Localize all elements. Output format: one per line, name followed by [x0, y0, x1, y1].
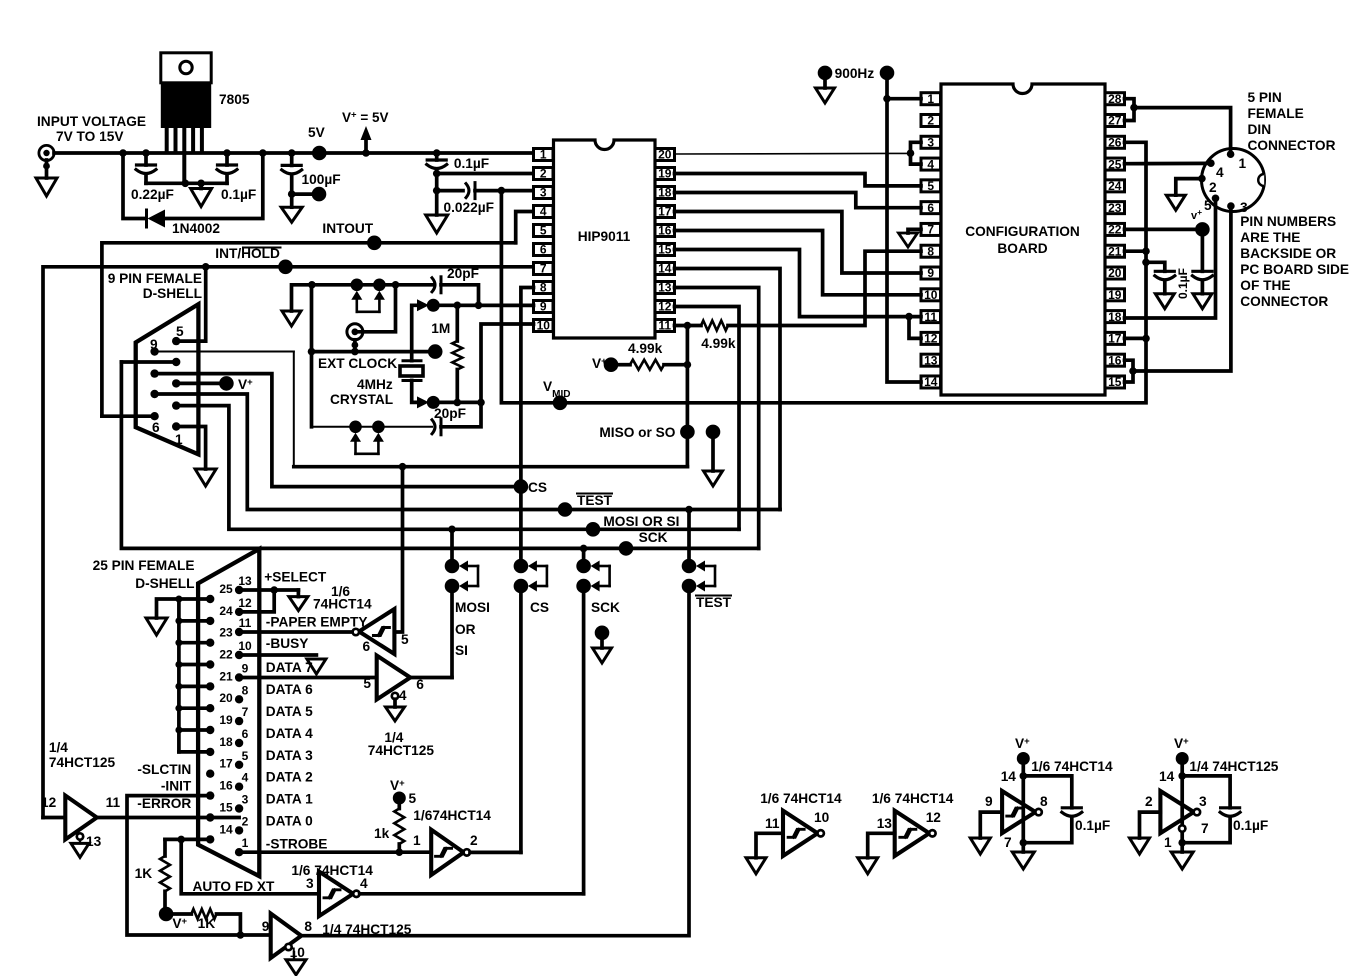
pin 4 CONFIGURATION BOARD — [921, 158, 941, 170]
overline INT/HOLD — [243, 247, 281, 249]
svg-text:6: 6 — [242, 727, 249, 741]
pin 26 CONFIGURATION BOARD — [1105, 136, 1125, 148]
pin 24 DB25 — [206, 617, 214, 625]
resistor R1 4.99k pullup to V+ — [604, 357, 619, 372]
wire config 16/15 bracket to DIN pin3 — [1125, 360, 1134, 382]
svg-text:0.1µF: 0.1µF — [454, 156, 489, 171]
svg-text:10: 10 — [814, 810, 830, 825]
svg-text:2: 2 — [470, 833, 478, 848]
pin 16 DB25 — [206, 791, 214, 799]
ground DB9 pin1 — [195, 469, 216, 486]
svg-text:CS: CS — [530, 600, 549, 615]
wire bottom jumper line — [312, 426, 433, 428]
svg-text:8: 8 — [1040, 794, 1048, 809]
wire config pin25 to DIN pin4 — [1125, 162, 1208, 166]
wire jack center to jumper — [358, 285, 396, 332]
resistor R5 1K vertical — [160, 856, 170, 891]
svg-text:3: 3 — [306, 876, 314, 891]
pin 13 DB25 — [235, 586, 243, 594]
svg-text:0.022µF: 0.022µF — [444, 200, 495, 215]
svg-text:11: 11 — [658, 319, 671, 333]
wire TEST jumper to buffer output — [301, 586, 689, 936]
svg-text:1: 1 — [413, 833, 421, 848]
svg-text:9: 9 — [927, 266, 934, 280]
node XTAL1 — [427, 299, 440, 312]
pin 5 CONFIGURATION BOARD — [921, 180, 941, 192]
wire XTAL1 node to HIP pin9 — [433, 303, 533, 307]
svg-text:7V TO 15V: 7V TO 15V — [56, 129, 124, 144]
svg-text:BACKSIDE OR: BACKSIDE OR — [1240, 246, 1336, 261]
ground -BUSY — [307, 659, 326, 674]
wire MOSI net from DB9 pin2 — [176, 406, 739, 530]
svg-text:7: 7 — [540, 262, 547, 276]
wire V+ rail — [54, 151, 534, 155]
svg-text:4: 4 — [540, 205, 547, 219]
resistor R6 1K horizontal — [173, 912, 191, 916]
svg-text:10: 10 — [290, 945, 306, 960]
node MOSI OR SI — [586, 522, 601, 537]
resistor R4 1k pullup — [394, 809, 404, 845]
wire spare U3E input to ground — [980, 812, 1002, 838]
wire TEST net from DB9 pin7 — [155, 394, 780, 510]
ground DIN pin2 — [1166, 195, 1185, 210]
pin 11 CONFIGURATION BOARD — [921, 311, 941, 323]
svg-text:0.1µF: 0.1µF — [1075, 818, 1110, 833]
node 900Hz left — [818, 66, 833, 81]
pin 3 CONFIGURATION BOARD — [921, 136, 941, 148]
bubble enable pin4 — [392, 693, 398, 699]
connector J3 9 PIN FEMALE D-SHELL — [136, 304, 199, 454]
pin 22 DB25 — [206, 660, 214, 668]
svg-text:4: 4 — [399, 688, 407, 703]
svg-text:1: 1 — [175, 432, 183, 447]
wire DB9 pin3 to V+ — [176, 382, 219, 386]
svg-text:V+ = 5V: V+ = 5V — [342, 110, 388, 126]
svg-text:-INIT: -INIT — [161, 779, 192, 794]
svg-text:12: 12 — [238, 596, 252, 610]
wire CS inverter output — [470, 851, 521, 855]
pin 1 DIN — [1227, 150, 1235, 158]
wire XTAL2 node — [433, 401, 481, 405]
svg-text:0.22µF: 0.22µF — [131, 187, 174, 202]
pin 12 CONFIGURATION BOARD — [921, 332, 941, 344]
node VMID — [553, 396, 568, 411]
svg-text:CS: CS — [528, 480, 547, 495]
wire HIP pin16 to config pin10 — [675, 231, 922, 295]
wire VMID bus — [501, 142, 1146, 403]
svg-text:20: 20 — [219, 691, 233, 705]
svg-text:DATA 5: DATA 5 — [266, 704, 313, 719]
pin 14 DB25 — [206, 835, 214, 843]
svg-text:15: 15 — [219, 801, 233, 815]
svg-text:DATA 6: DATA 6 — [266, 682, 313, 697]
svg-text:-BUSY: -BUSY — [266, 636, 309, 651]
pin 23 DB25 — [206, 639, 214, 647]
wire EXT CLOCK line — [310, 285, 314, 427]
pin 7 CONFIGURATION BOARD — [921, 223, 941, 235]
svg-text:MOSI OR SI: MOSI OR SI — [603, 514, 679, 529]
svg-text:2: 2 — [1145, 794, 1153, 809]
svg-text:SCK: SCK — [591, 600, 620, 615]
svg-text:19: 19 — [1108, 288, 1122, 302]
wire HIP pin15 to config pin11 — [675, 250, 922, 317]
svg-text:6: 6 — [363, 639, 371, 654]
pin 10 HIP9011 — [534, 320, 554, 332]
wire config pins 3-4 bracket — [911, 142, 922, 164]
capacitor C10 0.1uF left — [1146, 262, 1165, 271]
capacitor C9 0.1uF spare 2 — [1221, 806, 1240, 809]
svg-text:4: 4 — [360, 876, 368, 891]
pin 5 HIP9011 — [534, 225, 554, 237]
svg-text:5: 5 — [401, 632, 409, 647]
pin 21 DB25 — [206, 682, 214, 690]
svg-text:900Hz: 900Hz — [835, 66, 875, 81]
svg-text:MOSI: MOSI — [455, 600, 490, 615]
svg-text:5: 5 — [540, 224, 547, 238]
wire 20pF to XTAL1 node — [441, 285, 479, 306]
svg-text:1: 1 — [1164, 835, 1172, 850]
svg-text:-ERROR: -ERROR — [137, 796, 191, 811]
wire XTAL2 to 20pF bottom — [441, 402, 481, 426]
regulator U2 7805 — [161, 53, 211, 83]
pin 18 HIP9011 — [655, 187, 675, 199]
bubble init buffer enable — [285, 944, 291, 950]
svg-text:4: 4 — [927, 157, 934, 171]
svg-text:CRYSTAL: CRYSTAL — [330, 392, 393, 407]
svg-text:D-SHELL: D-SHELL — [143, 286, 202, 301]
svg-text:13: 13 — [658, 281, 672, 295]
capacitor C1 0.22uF — [144, 153, 148, 165]
wire DATA7 to buffer input — [239, 676, 377, 680]
pin 17 DB25 — [206, 770, 214, 778]
svg-text:BOARD: BOARD — [997, 241, 1047, 256]
pin 25 DB25 — [206, 595, 214, 603]
svg-text:4.99k: 4.99k — [701, 336, 736, 351]
svg-text:1: 1 — [927, 92, 934, 106]
svg-text:2: 2 — [540, 167, 547, 181]
ground ext clock — [292, 285, 433, 311]
svg-text:CONNECTOR: CONNECTOR — [1248, 138, 1336, 153]
svg-text:15: 15 — [658, 243, 672, 257]
jumper ext clock bottom — [349, 421, 362, 434]
wire HIP pin14 to TEST line — [675, 269, 781, 510]
ground spare U4D — [1180, 843, 1184, 852]
svg-text:17: 17 — [658, 205, 672, 219]
svg-text:6: 6 — [540, 243, 547, 257]
wire +SELECT to ground — [239, 588, 298, 592]
pin 27 CONFIGURATION BOARD — [1105, 114, 1125, 126]
pin 2 HIP9011 — [534, 168, 554, 180]
pin 3 DB25 — [235, 804, 243, 812]
svg-text:4MHz: 4MHz — [357, 377, 393, 392]
wire INT/HOLD net — [43, 267, 534, 818]
pin 8 CONFIGURATION BOARD — [921, 245, 941, 257]
svg-text:17: 17 — [219, 757, 233, 771]
pin 16 CONFIGURATION BOARD — [1105, 354, 1125, 366]
wire to config pin 1 — [887, 97, 921, 101]
svg-text:7: 7 — [927, 223, 934, 237]
svg-text:1/6 74HCT14: 1/6 74HCT14 — [1031, 759, 1113, 774]
wire auto fd output to SCK jumper — [360, 892, 584, 896]
capacitor C3 100uF — [290, 153, 294, 165]
node ext clock test point — [428, 344, 443, 359]
pin 19 DB25 — [206, 726, 214, 734]
svg-text:19: 19 — [658, 167, 672, 181]
node INTOUT — [367, 236, 382, 251]
wire config pins 11-12 bracket — [909, 317, 921, 339]
wire AUTO FD XT net — [165, 838, 210, 842]
svg-text:0.1µF: 0.1µF — [221, 187, 256, 202]
pin 8 DB25 — [235, 695, 243, 703]
capacitor C7 20pF bottom — [432, 420, 435, 434]
svg-text:22: 22 — [219, 648, 233, 662]
svg-text:23: 23 — [219, 626, 233, 640]
wire DB9 pin9 — [155, 351, 294, 353]
svg-text:0.1µF: 0.1µF — [1233, 818, 1268, 833]
pin 20 HIP9011 — [655, 149, 675, 161]
svg-text:14: 14 — [1159, 769, 1175, 784]
pin 2 CONFIGURATION BOARD — [921, 114, 941, 126]
node TEST — [558, 502, 573, 517]
wire HIP pin12 to MOSI line — [675, 307, 740, 530]
jumper TEST — [687, 510, 691, 560]
pin 19 HIP9011 — [655, 168, 675, 180]
pin 8 HIP9011 — [534, 282, 554, 294]
inverter U3A 1/674HCT14 strobe to CS — [431, 830, 464, 875]
svg-text:10: 10 — [537, 319, 551, 333]
svg-text:7805: 7805 — [219, 92, 250, 107]
svg-text:25: 25 — [219, 582, 233, 596]
svg-text:7: 7 — [242, 705, 249, 719]
svg-text:4: 4 — [1216, 165, 1224, 180]
ground 7805 — [199, 183, 203, 188]
svg-text:5: 5 — [927, 179, 934, 193]
wire HIP pin11 to config pin8 — [728, 251, 921, 325]
connector J4 25 PIN FEMALE D-SHELL — [198, 549, 259, 876]
pin 17 HIP9011 — [655, 206, 675, 218]
wire -INIT net — [127, 796, 271, 935]
wire DB9 pin5 to INT/HOLD — [176, 267, 206, 341]
pin 2 DIN — [1198, 175, 1206, 183]
svg-text:4.99k: 4.99k — [628, 341, 663, 356]
wire HIP pin4 to INTOUT — [516, 212, 534, 243]
wire SCK jumper to inverter output — [582, 586, 586, 894]
svg-text:D-SHELL: D-SHELL — [135, 576, 194, 591]
svg-text:3: 3 — [1240, 200, 1248, 215]
wire ext clock top jumper line to 20pF — [308, 281, 316, 289]
wire config pin21 to VMID rail — [1125, 249, 1147, 253]
buffer U4B 1/4 74HCT125 init — [271, 914, 302, 959]
pin 9 HIP9011 — [534, 301, 554, 313]
inverter U3F 1/6 74HCT14 paper empty — [359, 609, 394, 654]
pin 23 CONFIGURATION BOARD — [1105, 202, 1125, 214]
pin 2 DB25 — [235, 826, 243, 834]
svg-text:-SLCTIN: -SLCTIN — [137, 762, 191, 777]
svg-text:20pF: 20pF — [434, 406, 466, 421]
wire INTOUT net — [102, 243, 516, 416]
capacitor C11 0.1uF right — [1201, 236, 1205, 271]
svg-text:10: 10 — [924, 288, 938, 302]
wire XTAL2 to HIP pin10 — [481, 324, 534, 402]
wire -PAPER EMPTY from inverter — [239, 630, 353, 634]
svg-text:3: 3 — [927, 135, 934, 149]
node 5V — [312, 146, 327, 161]
svg-text:OR: OR — [455, 622, 476, 637]
svg-text:PC BOARD SIDE: PC BOARD SIDE — [1240, 262, 1349, 277]
pin 12 DB25 — [235, 608, 243, 616]
svg-text:2: 2 — [242, 814, 249, 828]
connector J5 5 PIN DIN — [1202, 149, 1265, 212]
pin 13 CONFIGURATION BOARD — [921, 354, 941, 366]
svg-text:PIN NUMBERS: PIN NUMBERS — [1240, 214, 1336, 229]
svg-text:1: 1 — [242, 836, 249, 850]
svg-text:13: 13 — [238, 574, 252, 588]
svg-text:ARE THE: ARE THE — [1240, 230, 1300, 245]
svg-text:-STROBE: -STROBE — [266, 837, 328, 852]
power V+ = 5V arrow — [364, 140, 368, 153]
wire DB9 pin1 to ground — [176, 427, 205, 470]
pin 18 DB25 — [206, 748, 214, 756]
svg-text:5V: 5V — [308, 125, 326, 140]
ground C10 — [1155, 294, 1174, 309]
wire buffer output to MOSI jumper — [410, 676, 452, 680]
wire DIN pin2 to ground — [1176, 179, 1199, 196]
svg-text:8: 8 — [927, 244, 934, 258]
pin 1 HIP9011 — [534, 149, 554, 161]
wire HIP pin19 to config pin5 — [675, 174, 922, 186]
svg-text:27: 27 — [1108, 114, 1122, 128]
ground 900Hz — [823, 80, 827, 88]
pin 14 CONFIGURATION BOARD — [921, 376, 941, 388]
svg-text:12: 12 — [658, 300, 672, 314]
jack J2 EXT CLOCK — [347, 324, 363, 340]
svg-text:MISO or SO: MISO or SO — [599, 425, 675, 440]
wire V+ pullup junction to MISO — [686, 326, 690, 467]
bubble paper empty inverter — [353, 629, 359, 635]
wire input jack to ground — [45, 160, 49, 178]
ground error buffer — [71, 843, 89, 857]
svg-text:16: 16 — [219, 779, 233, 793]
pin 15 CONFIGURATION BOARD — [1105, 376, 1125, 388]
svg-text:8: 8 — [540, 281, 547, 295]
svg-text:26: 26 — [1108, 135, 1122, 149]
pin 10 CONFIGURATION BOARD — [921, 289, 941, 301]
svg-text:0.1µF: 0.1µF — [1176, 268, 1190, 299]
pin 3 DIN — [1227, 202, 1235, 210]
node INT/HOLD — [278, 260, 293, 275]
svg-text:1M: 1M — [431, 321, 450, 336]
jumper MOSI — [450, 529, 454, 559]
svg-text:5: 5 — [1204, 198, 1212, 213]
svg-text:INPUT VOLTAGE: INPUT VOLTAGE — [37, 114, 146, 129]
svg-text:OF THE: OF THE — [1240, 278, 1290, 293]
svg-text:23: 23 — [1108, 201, 1122, 215]
pin 6 CONFIGURATION BOARD — [921, 202, 941, 214]
svg-text:EXT CLOCK: EXT CLOCK — [318, 356, 397, 371]
resistor R3 1M — [455, 305, 459, 341]
node XTAL2 — [427, 396, 440, 409]
svg-text:11: 11 — [106, 795, 121, 810]
IC U5 CONFIGURATION BOARD — [941, 84, 1105, 395]
wire HIP pin17 to config pin9 — [675, 212, 922, 274]
svg-text:14: 14 — [1001, 769, 1017, 784]
svg-text:18: 18 — [1108, 310, 1122, 324]
svg-text:24: 24 — [219, 604, 233, 618]
ground init buffer — [286, 960, 306, 975]
svg-text:TEST: TEST — [577, 493, 613, 508]
capacitor C6 20pF top — [432, 278, 435, 292]
svg-text:14: 14 — [658, 262, 672, 276]
svg-text:HIP9011: HIP9011 — [578, 229, 631, 244]
svg-text:74HCT125: 74HCT125 — [368, 743, 435, 758]
node V+ DB9 — [219, 376, 234, 391]
svg-text:18: 18 — [658, 186, 672, 200]
pin 21 CONFIGURATION BOARD — [1105, 245, 1125, 257]
svg-text:1K: 1K — [135, 866, 153, 881]
svg-text:11: 11 — [239, 616, 252, 630]
svg-text:3: 3 — [1199, 794, 1207, 809]
pin 13 HIP9011 — [655, 282, 675, 294]
wire HIP pin18 to config pin6 — [675, 193, 922, 208]
svg-text:CONNECTOR: CONNECTOR — [1240, 294, 1328, 309]
capacitor C4 0.1uF at HIP pin1 — [435, 153, 439, 160]
wire config 28/27 bracket to DIN pin1 — [1125, 99, 1135, 121]
svg-text:SI: SI — [455, 643, 468, 658]
node SCK NC ground — [595, 626, 610, 641]
pin 19 CONFIGURATION BOARD — [1105, 289, 1125, 301]
node 900Hz right — [880, 66, 895, 81]
capacitor C8 0.1uF spare — [1062, 806, 1081, 809]
wire crystal top to XTAL1 — [412, 305, 422, 360]
svg-text:+SELECT: +SELECT — [264, 570, 327, 585]
pin 6 DB25 — [235, 739, 243, 747]
wire DB9 pin9 to MISO line — [293, 352, 295, 467]
wire jack shell to ext clock line — [353, 340, 357, 352]
svg-text:13: 13 — [877, 816, 893, 831]
svg-text:14: 14 — [924, 375, 938, 389]
svg-text:24: 24 — [1108, 179, 1122, 193]
pin 24 CONFIGURATION BOARD — [1105, 180, 1125, 192]
ground spare 1/6 74HCT14 input — [858, 858, 878, 874]
svg-text:20pF: 20pF — [447, 266, 479, 281]
svg-text:1: 1 — [540, 148, 547, 162]
svg-text:1/6 74HCT14: 1/6 74HCT14 — [872, 791, 954, 806]
pin 22 CONFIGURATION BOARD — [1105, 223, 1125, 235]
ground spare U3E — [1021, 843, 1025, 852]
pin 16 HIP9011 — [655, 225, 675, 237]
pin 17 CONFIGURATION BOARD — [1105, 332, 1125, 344]
svg-text:1N4002: 1N4002 — [172, 221, 220, 236]
pin 7 HIP9011 — [534, 263, 554, 275]
resistor R2 4.99k at HIP pin11 — [675, 324, 702, 328]
svg-text:14: 14 — [219, 822, 233, 836]
wire spare U4D input to ground — [1140, 812, 1161, 838]
pin 9 CONFIGURATION BOARD — [921, 267, 941, 279]
crystal Y1 4MHz — [403, 359, 421, 362]
wire config pin22 to V+ node — [1125, 228, 1203, 232]
svg-text:DATA 2: DATA 2 — [266, 770, 313, 785]
pin 4 DB25 — [235, 783, 243, 791]
inverter U3B 1/6 74HCT14 auto fd — [319, 872, 353, 917]
bubble error buffer enable — [77, 833, 83, 839]
bubble spare U4D enable — [1179, 825, 1185, 831]
svg-text:5: 5 — [363, 676, 371, 691]
ground config pin7 — [908, 229, 921, 233]
svg-text:INTOUT: INTOUT — [322, 221, 373, 236]
bubble auto fd inverter — [353, 891, 359, 897]
ground buffer enable — [386, 707, 405, 721]
node V+ strobe pullup — [393, 792, 406, 805]
